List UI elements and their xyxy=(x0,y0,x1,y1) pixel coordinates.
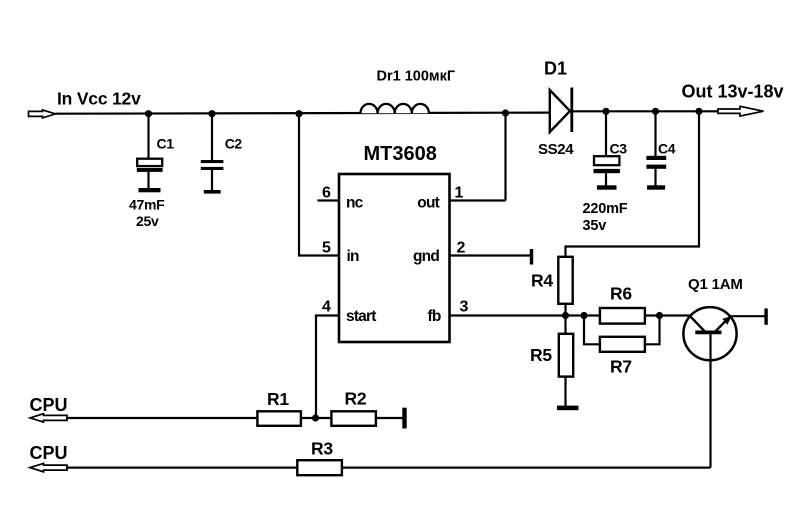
resistor R7 branch xyxy=(584,316,600,345)
resistor R2 xyxy=(331,411,376,426)
svg-text:MT3608: MT3608 xyxy=(364,143,437,165)
node start net xyxy=(312,414,319,421)
terminal bar R2 xyxy=(402,408,406,429)
svg-text:C2: C2 xyxy=(225,136,243,152)
svg-text:out: out xyxy=(417,195,439,212)
resistor R6 xyxy=(600,308,645,324)
node fb R4 R5 xyxy=(562,312,569,319)
svg-text:R6: R6 xyxy=(610,284,632,304)
pin 4 wire xyxy=(316,316,339,419)
resistor R1 xyxy=(257,411,301,426)
svg-text:Q1 1AM: Q1 1AM xyxy=(688,276,743,293)
svg-text:35v: 35v xyxy=(583,218,607,234)
svg-text:4: 4 xyxy=(322,299,331,316)
input arrow In xyxy=(29,110,56,118)
pin 2 wire xyxy=(450,254,531,256)
ground R5 xyxy=(557,406,579,411)
node C4 xyxy=(652,108,659,115)
pin 6 stub xyxy=(318,199,340,201)
wire pin1 to rail xyxy=(504,113,506,201)
svg-text:Out 13v-18v: Out 13v-18v xyxy=(682,82,784,102)
svg-text:in: in xyxy=(347,248,360,265)
svg-text:R2: R2 xyxy=(345,389,367,409)
wire R4 to fb xyxy=(564,304,566,316)
wire to pin 5 xyxy=(299,114,339,256)
svg-text:R4: R4 xyxy=(531,271,553,291)
CPU arrow 2 xyxy=(30,463,67,471)
svg-text:gnd: gnd xyxy=(413,248,439,265)
capacitor C1 xyxy=(147,114,149,159)
svg-text:CPU: CPU xyxy=(30,395,68,415)
capacitor C4 xyxy=(654,111,656,156)
svg-text:47mF: 47mF xyxy=(129,197,165,213)
wire CPU2 to R3 xyxy=(66,467,297,469)
svg-text:3: 3 xyxy=(460,299,469,316)
node C1 xyxy=(145,110,152,117)
svg-text:C4: C4 xyxy=(658,141,676,157)
CPU arrow 1 xyxy=(30,414,67,422)
inductor Dr1 xyxy=(361,104,429,113)
transistor Q1 xyxy=(683,307,736,360)
resistor R3 xyxy=(297,460,342,475)
wire top rail right xyxy=(573,110,718,112)
svg-text:R1: R1 xyxy=(267,389,289,409)
wire top rail left xyxy=(56,113,550,114)
svg-text:Dr1 100мкГ: Dr1 100мкГ xyxy=(377,68,456,84)
svg-text:fb: fb xyxy=(427,308,440,325)
svg-text:In Vcc 12v: In Vcc 12v xyxy=(57,89,141,109)
svg-text:start: start xyxy=(346,308,376,325)
terminal bar pin 2 xyxy=(530,249,533,265)
capacitor C3 xyxy=(605,111,607,156)
svg-text:220mF: 220mF xyxy=(583,201,628,217)
ground C2 xyxy=(204,190,221,194)
pin 1 wire xyxy=(450,199,506,201)
diode D1 xyxy=(550,90,570,132)
svg-text:25v: 25v xyxy=(136,213,159,229)
svg-text:SS24: SS24 xyxy=(538,141,574,158)
svg-text:nc: nc xyxy=(346,195,364,212)
terminal bar Q1 xyxy=(764,308,767,324)
node R6 R7 right xyxy=(656,312,663,319)
ground C1 xyxy=(139,188,161,192)
node pin5 branch xyxy=(295,110,302,117)
svg-text:5: 5 xyxy=(322,240,331,257)
node R4 branch xyxy=(695,108,702,115)
output arrow Out xyxy=(718,106,764,116)
wire R2 to terminal xyxy=(376,417,403,419)
svg-text:6: 6 xyxy=(322,185,331,202)
svg-text:2: 2 xyxy=(457,240,466,257)
node C3 xyxy=(602,108,609,115)
node out rail xyxy=(502,109,509,116)
node C2 xyxy=(208,110,215,117)
op-amp U1 MT3608 body xyxy=(339,174,450,342)
wire Q1 to terminal xyxy=(730,315,765,317)
svg-text:D1: D1 xyxy=(544,59,567,79)
ground C3 xyxy=(597,185,617,189)
svg-text:CPU: CPU xyxy=(30,443,68,463)
resistor R5 xyxy=(564,316,566,335)
wire Q1 base down xyxy=(709,334,711,468)
wire rail to R4 xyxy=(566,111,700,257)
node R6 R7 left xyxy=(580,312,587,319)
svg-text:R5: R5 xyxy=(530,345,552,365)
svg-text:C1: C1 xyxy=(157,136,175,152)
svg-text:R3: R3 xyxy=(311,439,333,459)
svg-text:1: 1 xyxy=(455,185,464,202)
svg-text:R7: R7 xyxy=(610,357,632,377)
wire CPU1 to R1 xyxy=(66,417,258,419)
pin 3 wire fb net xyxy=(450,314,691,316)
wire R1 to R2 xyxy=(301,417,332,419)
wire R3 to Q1 base xyxy=(342,467,711,469)
ground C4 xyxy=(647,185,665,189)
capacitor C2 xyxy=(211,114,213,161)
resistor R4 xyxy=(558,257,572,304)
svg-text:C3: C3 xyxy=(610,141,628,157)
